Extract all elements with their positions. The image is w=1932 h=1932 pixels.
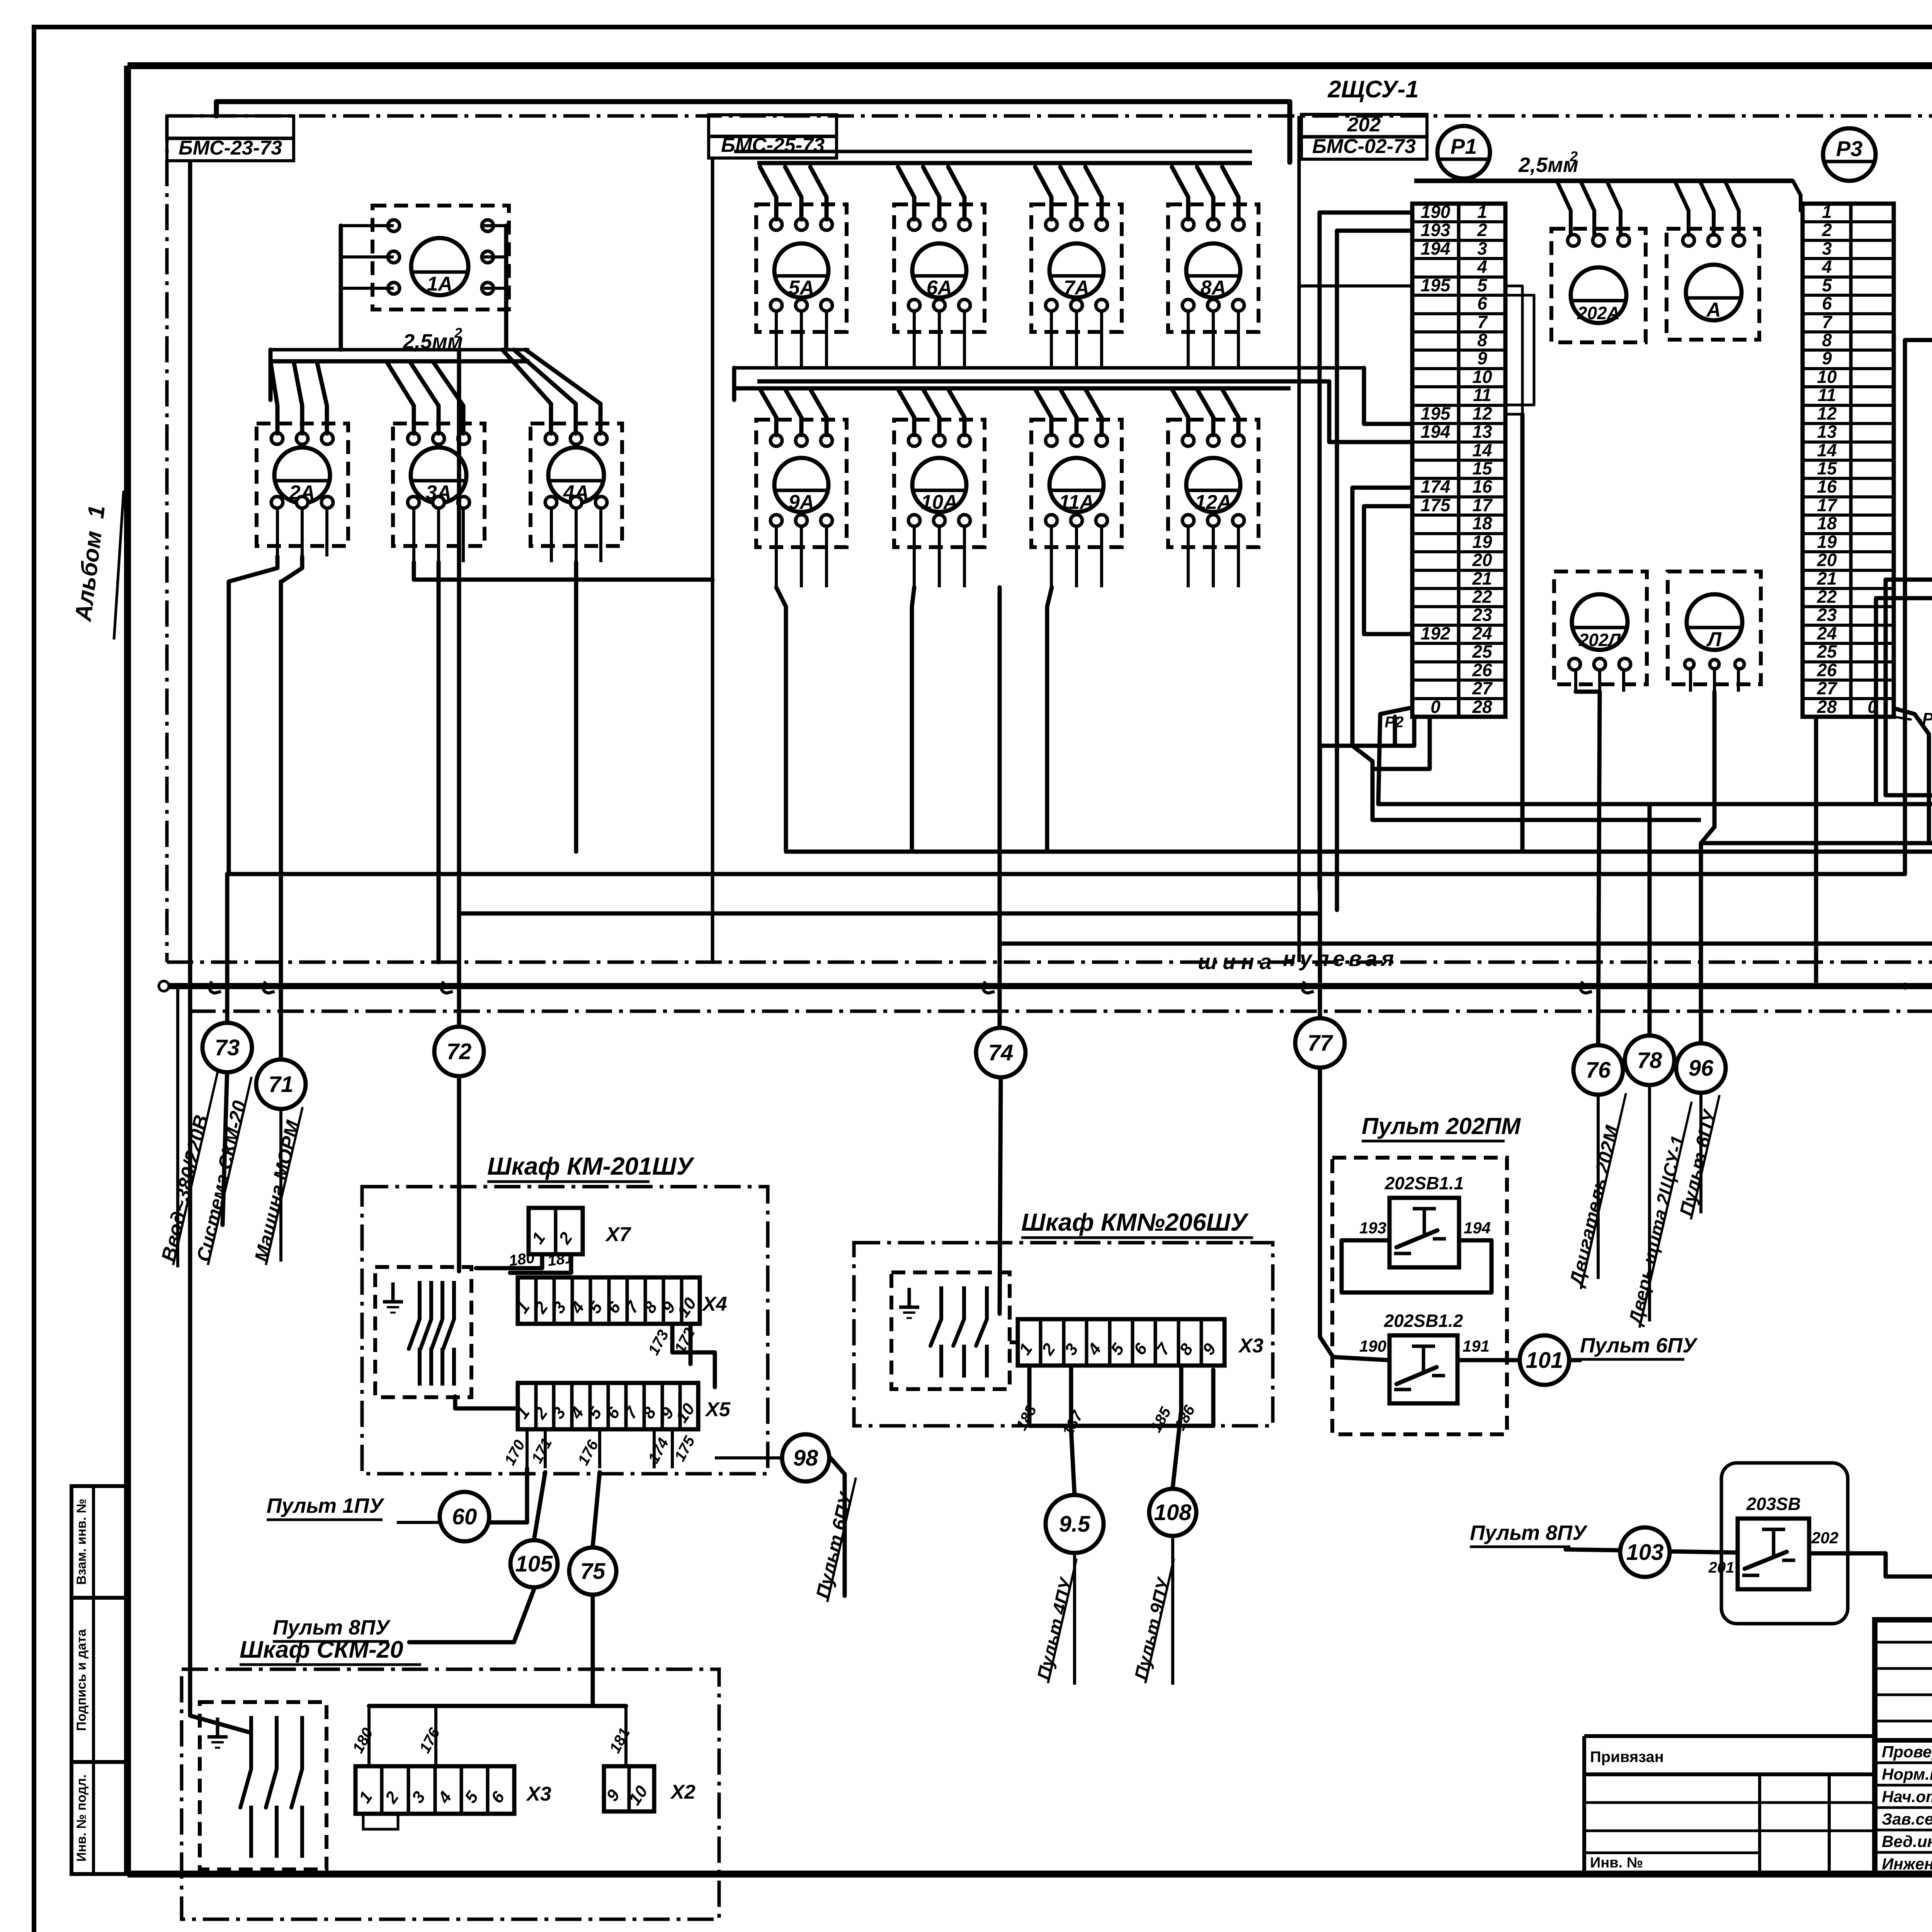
svg-text:Пульт 1ПУ: Пульт 1ПУ xyxy=(267,1494,384,1517)
svg-text:Р3: Р3 xyxy=(1836,136,1863,161)
svg-text:Х2: Х2 xyxy=(670,1781,696,1803)
svg-text:28: 28 xyxy=(1472,697,1492,717)
svg-text:21: 21 xyxy=(1472,568,1492,588)
svg-text:Пульт 202ПМ: Пульт 202ПМ xyxy=(1362,1113,1521,1139)
svg-text:5А: 5А xyxy=(789,277,814,299)
svg-text:78: 78 xyxy=(1637,1048,1662,1073)
svg-text:16: 16 xyxy=(1472,476,1492,497)
svg-text:Провер.: Провер. xyxy=(1882,1743,1932,1761)
svg-text:11: 11 xyxy=(1473,385,1492,405)
svg-text:Инв. № подл.: Инв. № подл. xyxy=(74,1774,89,1862)
svg-text:202SB1.1: 202SB1.1 xyxy=(1384,1173,1464,1193)
svg-text:1: 1 xyxy=(1477,202,1487,222)
svg-text:202А: 202А xyxy=(1577,303,1620,323)
svg-text:193: 193 xyxy=(1421,220,1451,240)
svg-text:74: 74 xyxy=(988,1040,1014,1065)
svg-text:22: 22 xyxy=(1816,587,1837,607)
svg-text:1: 1 xyxy=(1822,202,1832,222)
svg-text:73: 73 xyxy=(215,1035,240,1060)
svg-text:Пульт 6ПУ: Пульт 6ПУ xyxy=(1580,1334,1698,1357)
svg-text:шина: шина xyxy=(1198,949,1277,974)
svg-text:72: 72 xyxy=(447,1039,472,1064)
svg-text:2: 2 xyxy=(454,325,462,341)
svg-text:203SB: 203SB xyxy=(1746,1494,1801,1514)
svg-text:6: 6 xyxy=(1477,293,1487,313)
svg-text:24: 24 xyxy=(1472,623,1492,643)
svg-text:Х5: Х5 xyxy=(704,1398,731,1421)
svg-text:15: 15 xyxy=(1817,458,1837,478)
svg-text:9: 9 xyxy=(1822,348,1832,368)
svg-text:7: 7 xyxy=(1822,312,1833,332)
svg-text:5: 5 xyxy=(1477,275,1488,295)
svg-text:12А: 12А xyxy=(1195,491,1231,514)
svg-text:202SB1.2: 202SB1.2 xyxy=(1384,1311,1463,1331)
svg-text:Пульт 8ПУ: Пульт 8ПУ xyxy=(1470,1521,1588,1544)
svg-text:25: 25 xyxy=(1472,641,1493,662)
svg-text:10: 10 xyxy=(1472,367,1492,387)
svg-text:17: 17 xyxy=(1817,495,1838,515)
svg-text:20: 20 xyxy=(1816,550,1837,570)
svg-text:Шкаф КМ№206ШУ: Шкаф КМ№206ШУ xyxy=(1021,1208,1249,1236)
svg-text:96: 96 xyxy=(1689,1056,1714,1081)
svg-text:Подпись и дата: Подпись и дата xyxy=(74,1629,89,1731)
svg-text:БМС-23-73: БМС-23-73 xyxy=(179,137,282,159)
svg-text:13: 13 xyxy=(1817,422,1837,442)
svg-text:15: 15 xyxy=(1472,458,1493,478)
svg-text:195: 195 xyxy=(1421,403,1451,423)
svg-text:3: 3 xyxy=(1822,238,1832,259)
svg-text:27: 27 xyxy=(1472,678,1493,698)
svg-text:2ЩСУ-1: 2ЩСУ-1 xyxy=(1327,76,1418,103)
svg-text:105: 105 xyxy=(515,1551,553,1577)
svg-text:8А: 8А xyxy=(1201,277,1226,299)
svg-text:192: 192 xyxy=(1421,623,1451,643)
svg-text:25: 25 xyxy=(1816,641,1837,662)
svg-text:24: 24 xyxy=(1816,623,1837,643)
svg-text:26: 26 xyxy=(1472,660,1492,680)
svg-text:18: 18 xyxy=(1817,513,1837,533)
svg-text:Инв. №: Инв. № xyxy=(1590,1855,1643,1871)
svg-text:6А: 6А xyxy=(927,277,952,299)
svg-text:194: 194 xyxy=(1421,422,1451,442)
svg-text:Инженер: Инженер xyxy=(1882,1855,1932,1873)
svg-text:12: 12 xyxy=(1472,403,1492,423)
svg-text:6: 6 xyxy=(1822,293,1832,313)
svg-text:БМС-02-73: БМС-02-73 xyxy=(1312,135,1416,158)
svg-text:Вед.инж.: Вед.инж. xyxy=(1882,1832,1932,1850)
svg-text:77: 77 xyxy=(1308,1031,1333,1056)
svg-text:174: 174 xyxy=(1421,476,1451,497)
svg-text:2,5мм: 2,5мм xyxy=(1518,153,1578,177)
svg-text:19: 19 xyxy=(1817,532,1837,552)
svg-text:2: 2 xyxy=(1477,220,1487,240)
svg-text:19: 19 xyxy=(1472,532,1492,552)
svg-text:Х3: Х3 xyxy=(526,1783,551,1805)
svg-text:202: 202 xyxy=(1347,114,1381,136)
svg-text:3: 3 xyxy=(1477,238,1487,259)
svg-text:9А: 9А xyxy=(789,491,814,514)
svg-text:103: 103 xyxy=(1626,1540,1664,1565)
svg-text:Х7: Х7 xyxy=(605,1223,631,1246)
svg-text:191: 191 xyxy=(1463,1337,1490,1355)
svg-text:Х4: Х4 xyxy=(701,1293,727,1315)
svg-text:2: 2 xyxy=(1570,148,1578,164)
svg-text:14: 14 xyxy=(1817,440,1837,460)
svg-text:Норм.контр: Норм.контр xyxy=(1882,1765,1932,1783)
svg-text:12: 12 xyxy=(1817,403,1837,423)
svg-text:23: 23 xyxy=(1472,605,1492,625)
svg-text:190: 190 xyxy=(1421,202,1451,222)
svg-text:28: 28 xyxy=(1816,697,1837,717)
svg-text:1А: 1А xyxy=(427,273,452,295)
svg-text:16: 16 xyxy=(1817,476,1837,497)
svg-text:101: 101 xyxy=(1526,1348,1563,1373)
svg-text:17: 17 xyxy=(1472,495,1493,515)
svg-text:201: 201 xyxy=(1708,1559,1735,1576)
svg-text:21: 21 xyxy=(1816,568,1837,588)
svg-text:202Л: 202Л xyxy=(1578,630,1621,650)
svg-text:23: 23 xyxy=(1816,605,1837,625)
svg-text:9: 9 xyxy=(1477,348,1487,368)
svg-text:202: 202 xyxy=(1811,1529,1838,1547)
svg-text:71: 71 xyxy=(269,1072,294,1097)
svg-text:195: 195 xyxy=(1421,275,1451,295)
svg-text:8: 8 xyxy=(1822,330,1832,350)
svg-text:27: 27 xyxy=(1816,678,1838,698)
svg-text:4: 4 xyxy=(1821,257,1832,277)
svg-text:194: 194 xyxy=(1464,1219,1491,1237)
svg-text:Р1: Р1 xyxy=(1451,134,1477,158)
svg-text:2: 2 xyxy=(1821,220,1832,240)
svg-text:60: 60 xyxy=(452,1504,477,1529)
svg-text:14: 14 xyxy=(1472,440,1492,460)
svg-text:193: 193 xyxy=(1359,1219,1386,1237)
svg-text:Привязан: Привязан xyxy=(1590,1748,1664,1765)
svg-text:Х3: Х3 xyxy=(1238,1335,1264,1357)
svg-text:А: А xyxy=(1706,299,1721,321)
svg-text:26: 26 xyxy=(1816,660,1837,680)
svg-text:10А: 10А xyxy=(921,491,957,514)
svg-text:18: 18 xyxy=(1472,513,1492,533)
svg-text:175: 175 xyxy=(1421,495,1451,515)
svg-text:5: 5 xyxy=(1822,275,1832,295)
svg-text:22: 22 xyxy=(1472,587,1492,607)
svg-text:13: 13 xyxy=(1472,422,1492,442)
svg-text:190: 190 xyxy=(1359,1337,1386,1355)
svg-text:7: 7 xyxy=(1477,312,1488,332)
svg-text:Пульт 8ПУ: Пульт 8ПУ xyxy=(273,1616,391,1639)
svg-text:Шкаф КМ-201ШУ: Шкаф КМ-201ШУ xyxy=(487,1152,695,1180)
svg-text:Взам. инв. №: Взам. инв. № xyxy=(74,1498,89,1585)
svg-text:98: 98 xyxy=(793,1446,818,1471)
svg-text:11А: 11А xyxy=(1059,491,1094,514)
svg-text:7А: 7А xyxy=(1064,277,1089,299)
svg-text:10: 10 xyxy=(1817,367,1837,387)
svg-text:75: 75 xyxy=(580,1559,605,1584)
svg-text:76: 76 xyxy=(1586,1058,1611,1083)
svg-text:9.5: 9.5 xyxy=(1059,1512,1090,1537)
svg-text:0: 0 xyxy=(1430,697,1440,717)
svg-text:нулевая: нулевая xyxy=(1283,946,1398,971)
svg-text:Л: Л xyxy=(1706,628,1722,651)
svg-text:194: 194 xyxy=(1421,238,1451,259)
svg-text:11: 11 xyxy=(1818,385,1836,405)
svg-text:4: 4 xyxy=(1477,257,1487,277)
svg-text:8: 8 xyxy=(1477,330,1487,350)
svg-text:Зав.сект.: Зав.сект. xyxy=(1882,1810,1932,1828)
svg-text:108: 108 xyxy=(1154,1500,1192,1525)
svg-text:20: 20 xyxy=(1472,550,1492,570)
svg-text:Нач.отд.: Нач.отд. xyxy=(1882,1787,1932,1806)
